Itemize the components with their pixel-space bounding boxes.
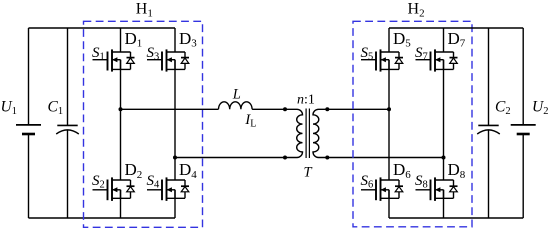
svg-text:D4: D4 xyxy=(179,160,197,181)
wire leg S7/S8 (x=443.5) xyxy=(443,28,445,218)
svg-text:S8: S8 xyxy=(415,173,428,191)
capacitor C1 xyxy=(56,125,79,134)
wire C1 rail xyxy=(67,28,69,218)
transformer terminal dot secondary bottom xyxy=(325,156,329,160)
capacitor C2 xyxy=(477,125,500,134)
wire secondary link top xyxy=(319,108,390,110)
svg-text:D8: D8 xyxy=(448,160,466,181)
body diode D2 xyxy=(127,180,135,198)
transformer terminal dot primary bottom xyxy=(283,156,287,160)
svg-text:D1: D1 xyxy=(125,29,143,50)
voltage source U2 xyxy=(511,125,536,134)
body diode D5 xyxy=(395,52,403,69)
junction node leg S1/S2 midpoint xyxy=(119,107,123,111)
transformer terminal dot primary top xyxy=(283,107,287,111)
svg-text:C1: C1 xyxy=(48,99,64,118)
wire bottom bus (left bridge) xyxy=(29,217,176,219)
body diode D7 xyxy=(450,52,458,69)
svg-text:S2: S2 xyxy=(92,173,105,191)
svg-text:D5: D5 xyxy=(393,29,411,50)
svg-text:S1: S1 xyxy=(92,45,105,63)
wire top bus (right bridge) xyxy=(389,27,523,29)
wire leg S3/S4 (x=175) xyxy=(174,28,176,218)
H1 bridge dashed box xyxy=(84,21,203,227)
transformer terminal dot secondary top xyxy=(325,107,329,111)
svg-text:IL: IL xyxy=(244,112,256,129)
junction node leg S5/S6 midpoint xyxy=(387,107,391,111)
wire AC link top (bridge leg A to inductor/transformer) xyxy=(121,108,298,110)
svg-text:D3: D3 xyxy=(179,29,197,50)
transformer T primary winding xyxy=(297,109,303,157)
svg-text:C2: C2 xyxy=(495,99,511,118)
junction node leg S7/S8 midpoint xyxy=(442,156,446,160)
transformer T secondary winding xyxy=(313,109,319,157)
transistor S7 (with body diode D7) xyxy=(416,49,454,71)
svg-text:T: T xyxy=(304,164,313,180)
wire top bus (left bridge) xyxy=(29,27,176,29)
wire U1 rail xyxy=(28,28,30,218)
transistor S4 (with body diode D4) xyxy=(147,177,185,201)
svg-text:L: L xyxy=(232,87,241,103)
inductor L xyxy=(219,102,253,110)
wire secondary link bottom xyxy=(319,157,444,159)
transformer core xyxy=(306,109,309,159)
wire AC link bottom (bridge leg B to transformer) xyxy=(175,157,297,159)
wire C2 rail xyxy=(488,28,490,218)
body diode D4 xyxy=(181,180,189,198)
svg-text:U1: U1 xyxy=(1,99,17,118)
H2 bridge dashed box xyxy=(353,21,472,227)
wire leg S5/S6 (x=389) xyxy=(388,28,390,218)
svg-text:S5: S5 xyxy=(361,45,374,63)
transistor S1 (with body diode D1) xyxy=(93,49,131,71)
svg-text:U2: U2 xyxy=(532,99,548,118)
transistor S8 (with body diode D8) xyxy=(416,177,454,201)
body diode D3 xyxy=(181,52,189,69)
transistor S5 (with body diode D5) xyxy=(361,49,399,71)
wire bottom bus (right bridge) xyxy=(389,217,523,219)
body diode D6 xyxy=(395,180,403,198)
svg-text:H2: H2 xyxy=(408,1,425,20)
body diode D8 xyxy=(450,180,458,198)
svg-text:n:1: n:1 xyxy=(297,92,315,107)
svg-text:S6: S6 xyxy=(361,173,374,191)
voltage source U1 xyxy=(16,125,41,134)
svg-text:D6: D6 xyxy=(393,160,411,181)
svg-text:S7: S7 xyxy=(415,45,428,63)
svg-text:S4: S4 xyxy=(147,173,161,191)
svg-text:H1: H1 xyxy=(136,1,153,20)
svg-text:D7: D7 xyxy=(448,29,466,50)
transistor S6 (with body diode D6) xyxy=(361,177,399,201)
svg-text:S3: S3 xyxy=(147,45,160,63)
transistor S2 (with body diode D2) xyxy=(93,177,131,201)
transistor S3 (with body diode D3) xyxy=(147,49,185,71)
body diode D1 xyxy=(127,52,135,69)
wire leg S1/S2 (x=120.5) xyxy=(120,28,122,218)
svg-text:D2: D2 xyxy=(125,160,143,181)
wire U2 rail xyxy=(522,28,524,218)
junction node leg S3/S4 midpoint xyxy=(173,156,177,160)
